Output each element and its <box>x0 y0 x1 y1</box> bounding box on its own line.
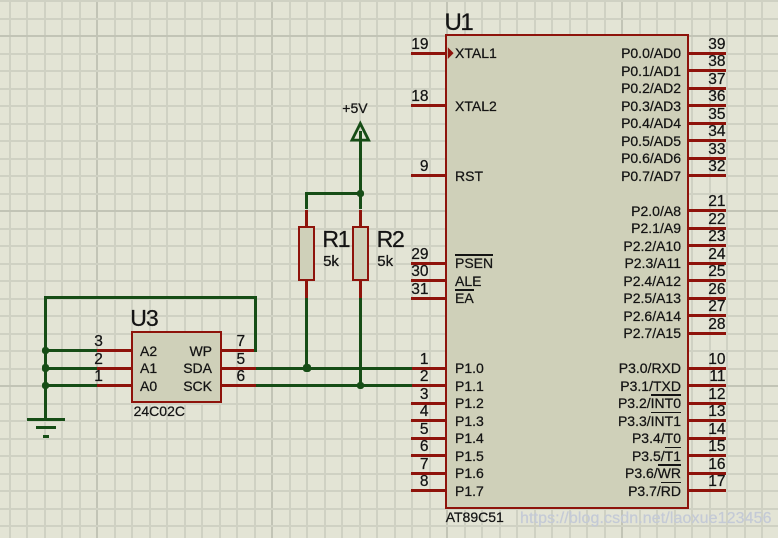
wire pin stub U1 pin 8 (P1.7) <box>411 489 448 492</box>
ground symbol bar 2 <box>36 426 56 429</box>
wire down to WP pin <box>254 297 257 352</box>
active-low overline for PSEN <box>455 254 493 256</box>
wire pin stub U1 pin 22 (P2.1/A9) <box>687 227 726 230</box>
wire pin stub U1 pin 9 (RST) <box>411 174 448 177</box>
wire pin stub U1 pin 3 (P1.2) <box>411 402 448 405</box>
wire pin stub U1 pin 12 (P3.2/INT0) <box>687 402 726 405</box>
pin number 26 of U1 <box>708 282 725 298</box>
wire pin stub U1 pin 25 (P2.4/A12) <box>687 279 726 282</box>
wire pin stub U1 pin 5 (P1.4) <box>411 437 448 440</box>
pin name A2 of U3 <box>140 344 157 358</box>
pin name P0.7/AD7 of U1 <box>621 169 681 183</box>
chip U1 AT89C51 body <box>445 34 689 509</box>
wire pin stub U1 pin 23 (P2.2/A10) <box>687 244 726 247</box>
wire pin stub U1 pin 34 (P0.5/AD5) <box>687 139 726 142</box>
wire pin stub U1 pin 26 (P2.5/A13) <box>687 297 726 300</box>
active-low overline for RD <box>661 482 681 484</box>
pin number 32 of U1 <box>708 159 725 175</box>
wire pin stub U3 pin 1 (A0) <box>96 384 132 387</box>
pin name XTAL2 of U1 <box>455 99 497 113</box>
pin name P0.5/AD5 of U1 <box>621 134 681 148</box>
pin number 4 of U1 <box>420 404 429 420</box>
wire pin stub U1 pin 27 (P2.6/A14) <box>687 314 726 317</box>
pin number 31 of U1 <box>411 282 428 298</box>
pin name P1.3 of U1 <box>455 414 484 428</box>
pin number 25 of U1 <box>708 264 725 280</box>
pin name SCK of U3 <box>183 379 212 393</box>
wire pin stub U1 pin 37 (P0.2/AD2) <box>687 87 726 90</box>
label AT89C51 value <box>446 510 504 524</box>
junction A1/ground bus <box>42 364 50 372</box>
wire pin stub U1 pin 36 (P0.3/AD3) <box>687 104 726 107</box>
pin number 2 of U1 <box>420 369 429 385</box>
pin name XTAL1 of U1 <box>455 46 497 60</box>
label R1 reference <box>322 228 349 251</box>
active-low overline for INT1 <box>651 412 681 414</box>
wire pin stub U1 pin 35 (P0.4/AD4) <box>687 122 726 125</box>
resistor R2 body <box>352 226 369 281</box>
active-low overline for EA <box>455 289 474 291</box>
pin number 23 of U1 <box>708 229 725 245</box>
pin name P1.5 of U1 <box>455 449 484 463</box>
pin name PSEN of U1 <box>455 256 493 270</box>
pin name P1.6 of U1 <box>455 466 484 480</box>
wire SDA net from U3 to U1 P1.0 <box>256 367 412 370</box>
pin name A0 of U3 <box>140 379 157 393</box>
junction A0/ground bus <box>42 382 50 390</box>
pin number 28 of U1 <box>708 317 725 333</box>
junction R1 on SDA net <box>303 364 311 372</box>
pin name P3.4/T0 of U1 <box>632 431 681 445</box>
wire R1 top link <box>305 193 308 209</box>
watermark text <box>520 511 772 527</box>
pin number 16 of U1 <box>708 457 725 473</box>
ground symbol bar 1 <box>27 418 65 421</box>
label R2 value 5k <box>377 254 393 269</box>
wire A1 to ground bus <box>44 367 97 370</box>
wire pin stub U1 pin 18 (XTAL2) <box>411 104 448 107</box>
wire pin stub U1 pin 24 (P2.3/A11) <box>687 262 726 265</box>
label R1 value 5k <box>323 254 339 269</box>
wire pin stub U1 pin 29 (PSEN) <box>411 262 448 265</box>
wire pin stub U1 pin 30 (ALE) <box>411 279 448 282</box>
wire pin stub R1 bottom <box>305 280 308 297</box>
wire pin stub U1 pin 10 (P3.0/RXD) <box>687 367 726 370</box>
junction A2/ground bus <box>42 347 50 355</box>
pin number 21 of U1 <box>708 194 725 210</box>
wire R2 bottom to SCK net <box>359 298 362 388</box>
pin name P3.2/INT0 of U1 <box>618 396 681 410</box>
pin number 13 of U1 <box>708 404 725 420</box>
pin number 22 of U1 <box>708 212 725 228</box>
pin number 7 of U3 <box>237 334 246 350</box>
label R2 reference <box>377 228 404 251</box>
wire ground bus vertical <box>44 297 47 419</box>
pin name RST of U1 <box>455 169 483 183</box>
wire pin stub R1 top <box>305 210 308 227</box>
pin name P0.1/AD1 of U1 <box>621 64 681 78</box>
pin name P3.6/WR of U1 <box>625 466 681 480</box>
active-low overline for INT0 <box>651 394 681 396</box>
pin number 24 of U1 <box>708 247 725 263</box>
wire pin stub U1 pin 14 (P3.4/T0) <box>687 437 726 440</box>
wire pin stub U1 pin 15 (P3.5/T1) <box>687 454 726 457</box>
pin number 35 of U1 <box>708 107 725 123</box>
wire A2 to ground bus <box>44 349 97 352</box>
wire pin stub U1 pin 17 (P3.7/RD) <box>687 489 726 492</box>
pin name P2.7/A15 of U1 <box>623 326 681 340</box>
pin number 15 of U1 <box>708 439 725 455</box>
wire pin stub U1 pin 16 (P3.6/WR) <box>687 472 726 475</box>
pin number 11 of U1 <box>709 369 725 385</box>
wire pin stub U1 pin 2 (P1.1) <box>411 384 448 387</box>
pin number 39 of U1 <box>708 37 725 53</box>
label U1 reference <box>445 11 473 35</box>
pin name P3.5/T1 of U1 <box>632 449 681 463</box>
pin number 6 of U3 <box>237 369 246 385</box>
wire pin stub U1 pin 21 (P2.0/A8) <box>687 209 726 212</box>
pin name P3.3/INT1 of U1 <box>618 414 681 428</box>
wire pin stub U1 pin 19 (XTAL1) <box>411 52 448 55</box>
power symbol +5V triangle <box>346 118 374 145</box>
pin name P0.2/AD2 of U1 <box>621 81 681 95</box>
wire pin stub U1 pin 4 (P1.3) <box>411 419 448 422</box>
pin name P1.2 of U1 <box>455 396 484 410</box>
label +5V net <box>342 101 367 115</box>
pin number 9 of U1 <box>420 159 429 175</box>
wire pin stub U1 pin 33 (P0.6/AD6) <box>687 157 726 160</box>
wire +5V stem down to junction <box>359 131 362 195</box>
wire pin stub U1 pin 38 (P0.1/AD1) <box>687 69 726 72</box>
ground symbol bar 3 <box>43 435 49 438</box>
wire pin stub U3 pin 2 (A1) <box>96 367 132 370</box>
pin name P1.1 of U1 <box>455 379 484 393</box>
wire pin stub R2 bottom <box>359 280 362 297</box>
pin number 19 of U1 <box>411 37 428 53</box>
pin name EA of U1 <box>455 291 474 305</box>
wire SCK net from U3 to U1 P1.1 <box>256 384 412 387</box>
pin name P2.4/A12 of U1 <box>623 274 681 288</box>
pin name ALE of U1 <box>455 274 481 288</box>
wire pin stub U1 pin 1 (P1.0) <box>411 367 448 370</box>
wire U3 top bus (WP to ground bus) <box>44 296 257 299</box>
EEPROM U3 24C02C body <box>131 331 222 403</box>
pin number 10 of U1 <box>708 352 725 368</box>
pin number 3 of U1 <box>420 387 429 403</box>
pin number 12 of U1 <box>708 387 725 403</box>
pin name P0.0/AD0 of U1 <box>621 46 681 60</box>
wire pin stub U1 pin 13 (P3.3/INT1) <box>687 419 726 422</box>
pin name P3.7/RD of U1 <box>628 484 681 498</box>
pin number 5 of U3 <box>237 352 246 368</box>
pin number 8 of U1 <box>420 474 429 490</box>
wire pin stub R2 top <box>359 210 362 227</box>
wire pin stub U1 pin 31 (EA) <box>411 297 448 300</box>
pin number 37 of U1 <box>708 72 725 88</box>
XTAL1 clock input arrow on U1 <box>447 46 457 60</box>
resistor R1 body <box>298 226 315 281</box>
wire pin stub U3 pin 3 (A2) <box>96 349 132 352</box>
wire pin stub U1 pin 11 (P3.1/TXD) <box>687 384 726 387</box>
pin name P2.2/A10 of U1 <box>623 239 681 253</box>
pin name P1.0 of U1 <box>455 361 484 375</box>
pin number 5 of U1 <box>420 422 429 438</box>
pin name P3.1/TXD of U1 <box>620 379 681 393</box>
label U3 reference <box>130 307 157 330</box>
pin name WP of U3 <box>189 344 212 358</box>
pin name P1.4 of U1 <box>455 431 484 445</box>
pin name P0.6/AD6 of U1 <box>621 151 681 165</box>
pin number 33 of U1 <box>708 142 725 158</box>
wire pin stub U1 pin 7 (P1.6) <box>411 472 448 475</box>
pin name P2.5/A13 of U1 <box>623 291 681 305</box>
pin number 17 of U1 <box>708 474 725 490</box>
pin name P3.0/RXD of U1 <box>619 361 681 375</box>
wire pin stub U3 pin 6 (SCK) <box>220 384 256 387</box>
pin number 18 of U1 <box>411 89 428 105</box>
wire R1 bottom to SDA net <box>305 298 308 370</box>
pin number 34 of U1 <box>708 124 725 140</box>
wire R2 top link below junction <box>359 195 362 210</box>
junction R2 on SCK net <box>357 382 365 390</box>
pin number 2 of U3 <box>94 352 103 368</box>
pin name SDA of U3 <box>183 361 212 375</box>
wire pin stub U1 pin 6 (P1.5) <box>411 454 448 457</box>
pin name P2.0/A8 of U1 <box>631 204 681 218</box>
wire pin stub U3 pin 5 (SDA) <box>220 367 256 370</box>
pin number 29 of U1 <box>411 247 428 263</box>
pin name P0.4/AD4 of U1 <box>621 116 681 130</box>
pin name A1 of U3 <box>140 361 157 375</box>
pin name P0.3/AD3 of U1 <box>621 99 681 113</box>
pin number 36 of U1 <box>708 89 725 105</box>
wire A0 to ground bus <box>44 384 97 387</box>
wire pin stub U3 pin 7 (WP) <box>220 349 256 352</box>
pin number 38 of U1 <box>708 54 725 70</box>
pin name P2.3/A11 of U1 <box>624 256 681 270</box>
pin name P1.7 of U1 <box>455 484 484 498</box>
pin number 7 of U1 <box>420 457 429 473</box>
junction at +5V/R2 node <box>357 190 365 198</box>
active-low overline for WR <box>658 464 681 466</box>
pin number 14 of U1 <box>708 422 725 438</box>
pin number 27 of U1 <box>708 299 725 315</box>
pin number 1 of U1 <box>420 352 429 368</box>
pin number 1 of U3 <box>94 369 103 385</box>
wire pin stub U1 pin 28 (P2.7/A15) <box>687 332 726 335</box>
wire pin stub U1 pin 39 (P0.0/AD0) <box>687 52 726 55</box>
pin number 30 of U1 <box>411 264 428 280</box>
pin name P2.6/A14 of U1 <box>623 309 681 323</box>
pin number 6 of U1 <box>420 439 429 455</box>
wire junction row from R1 to R2/+5V <box>305 192 362 195</box>
wire pin stub U1 pin 32 (P0.7/AD7) <box>687 174 726 177</box>
label 24C02C value <box>134 404 185 418</box>
pin number 3 of U3 <box>94 334 103 350</box>
pin name P2.1/A9 of U1 <box>631 221 681 235</box>
active-low overline for T1 <box>665 447 681 449</box>
